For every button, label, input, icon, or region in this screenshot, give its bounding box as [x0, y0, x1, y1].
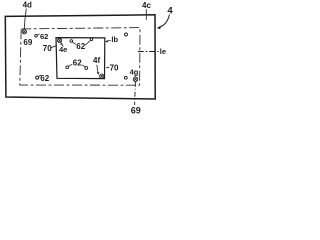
leader from 4d to screw hole [24, 9, 26, 29]
hole o right of bottom 62 [85, 67, 88, 70]
svg-text:62: 62 [40, 74, 49, 83]
svg-text:4: 4 [167, 5, 173, 16]
svg-text:69: 69 [23, 38, 32, 47]
outer panel rectangle 4 [5, 15, 155, 99]
dashed frame 1e [20, 28, 140, 86]
curved arrow from 4 to panel edge [159, 15, 170, 28]
svg-text:4g: 4g [130, 67, 139, 76]
svg-text:62: 62 [76, 42, 85, 51]
screw hole marker 4g on dashed frame [133, 77, 137, 81]
svg-text:4d: 4d [23, 1, 32, 10]
hole o + label 62 upper-left [35, 34, 38, 37]
svg-text:le: le [160, 47, 166, 56]
svg-text:lb: lb [111, 35, 118, 44]
screw hole marker 4e inside inner rect [58, 39, 62, 43]
svg-text:62: 62 [73, 58, 82, 67]
svg-text:69: 69 [131, 106, 141, 116]
svg-text:62: 62 [40, 32, 48, 41]
leader [69, 64, 73, 66]
leader [82, 65, 85, 67]
dash + label 70 right of inner rect [106, 67, 109, 69]
screw hole marker 4f bottom-right of inner rect [100, 74, 104, 78]
screw hole marker top-left (4d) [22, 30, 26, 34]
svg-text:70: 70 [110, 63, 119, 72]
inner rectangle 1b [56, 38, 105, 79]
dash-dot line from 4g marker down to 69 [134, 82, 137, 105]
svg-text:70: 70 [43, 44, 52, 53]
svg-text:4c: 4c [142, 1, 151, 10]
svg-text:4f: 4f [93, 56, 100, 65]
hole o + label 62 lower-left [36, 76, 39, 79]
hole o left of 62 top row [70, 40, 73, 43]
hole o right of 62 top row [90, 38, 93, 41]
hole o left of bottom 62 [66, 66, 69, 69]
hole o lower-right outside [124, 76, 127, 79]
hole o upper-right outside [125, 33, 128, 36]
tick for 4c crossing top edge [145, 9, 147, 20]
leader [85, 40, 90, 45]
leader [72, 42, 76, 45]
